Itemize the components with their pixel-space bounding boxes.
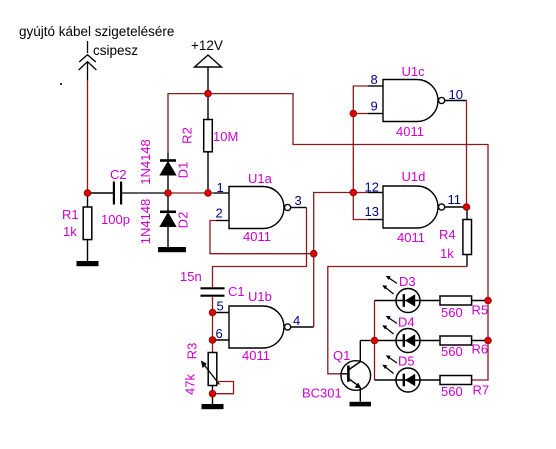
wire +12V rail right bbox=[208, 94, 488, 380]
diode D2 bbox=[160, 193, 176, 247]
svg-text:R2: R2 bbox=[180, 127, 195, 144]
ground under R1 bbox=[77, 261, 99, 266]
transistor Q1 bbox=[341, 341, 371, 402]
svg-text:560: 560 bbox=[441, 344, 463, 359]
junction pin5/C1 bbox=[209, 309, 216, 316]
junction R2/pin1 bbox=[205, 190, 212, 197]
resistor R7 bbox=[440, 376, 472, 385]
wire U1b out4 up to feedback bbox=[314, 193, 354, 328]
stray dot bbox=[60, 83, 62, 85]
svg-text:R5: R5 bbox=[472, 303, 489, 318]
svg-text:8: 8 bbox=[371, 72, 378, 87]
wire U1c out10 down to node 11 bbox=[466, 101, 468, 208]
junction pin2/out4 bbox=[310, 250, 317, 257]
resistor R6 bbox=[440, 336, 472, 345]
junction D1/D2 bbox=[165, 190, 172, 197]
ground under R3 bbox=[202, 404, 224, 409]
svg-text:100p: 100p bbox=[101, 212, 130, 227]
resistor R4 bbox=[463, 207, 472, 267]
svg-text:D2: D2 bbox=[176, 212, 191, 229]
resistor R5 bbox=[440, 296, 472, 305]
svg-text:C1: C1 bbox=[228, 284, 245, 299]
resistor R1 bbox=[83, 193, 92, 261]
capacitor C1 bbox=[201, 288, 225, 295]
pin 8 stub bbox=[368, 85, 383, 87]
svg-text:R3: R3 bbox=[185, 343, 200, 360]
svg-text:6: 6 bbox=[216, 326, 223, 341]
svg-text:D3: D3 bbox=[399, 274, 416, 289]
svg-text:+12V: +12V bbox=[191, 38, 223, 53]
svg-text:U1d: U1d bbox=[402, 169, 426, 184]
svg-text:4011: 4011 bbox=[243, 229, 271, 244]
wire LED row 1 bbox=[375, 300, 441, 302]
svg-text:R7: R7 bbox=[473, 383, 490, 398]
resistor R2 bbox=[204, 94, 213, 193]
wire R4 to Q1 base bbox=[328, 267, 467, 374]
op: NAND gate U1c bbox=[383, 80, 467, 122]
pin 13 stub bbox=[368, 219, 383, 221]
LED D5 bbox=[382, 355, 420, 392]
svg-text:13: 13 bbox=[365, 204, 379, 219]
svg-text:11: 11 bbox=[448, 192, 462, 207]
svg-text:BC301: BC301 bbox=[302, 386, 342, 401]
wire U1a out3 to C1 bbox=[213, 208, 307, 289]
pin 6 stub bbox=[213, 339, 230, 341]
svg-text:R6: R6 bbox=[472, 342, 489, 357]
junction node A (R1/C2) bbox=[84, 190, 91, 197]
pin 12 stub bbox=[368, 192, 383, 194]
svg-text:4: 4 bbox=[293, 313, 300, 328]
svg-text:4011: 4011 bbox=[396, 124, 424, 139]
svg-text:5: 5 bbox=[217, 299, 224, 314]
svg-text:2: 2 bbox=[216, 206, 223, 221]
wire C1 to U1b pins bbox=[212, 296, 214, 353]
wire clip to node A bbox=[87, 80, 89, 193]
svg-text:U1c: U1c bbox=[402, 64, 426, 79]
lead R5 to rail bbox=[472, 300, 488, 302]
svg-text:1N4148: 1N4148 bbox=[138, 139, 153, 185]
svg-text:560: 560 bbox=[441, 305, 463, 320]
svg-text:gyújtó kábel szigetelésére: gyújtó kábel szigetelésére bbox=[19, 24, 174, 39]
wire LED anode rail bbox=[374, 301, 376, 381]
wire LED row 3 bbox=[375, 379, 441, 381]
svg-text:10: 10 bbox=[449, 87, 463, 102]
svg-text:1k: 1k bbox=[440, 246, 454, 261]
diode D1 bbox=[160, 153, 176, 193]
svg-text:9: 9 bbox=[371, 99, 378, 114]
svg-text:10M: 10M bbox=[213, 129, 238, 144]
svg-text:1: 1 bbox=[217, 180, 224, 195]
wire R3 wiper loop bbox=[213, 382, 234, 394]
clip / probe symbol bbox=[79, 41, 97, 81]
op: NAND gate U1d bbox=[383, 186, 467, 228]
junction pin12 bbox=[350, 189, 357, 196]
ground under D2 bbox=[158, 247, 186, 252]
op: NAND gate U1b bbox=[229, 306, 314, 348]
potentiometer R3 bbox=[201, 353, 220, 405]
junction pin9 bbox=[350, 110, 357, 117]
pin 9 stub bbox=[368, 113, 383, 115]
wire main node row y=193 bbox=[88, 192, 114, 194]
svg-text:D1: D1 bbox=[176, 162, 191, 179]
capacitor C2 bbox=[114, 182, 121, 205]
svg-text:12: 12 bbox=[365, 180, 379, 195]
power symbol +12V bbox=[195, 55, 222, 67]
svg-text:C2: C2 bbox=[110, 167, 127, 182]
junction R3 bottom bbox=[209, 390, 216, 397]
junction collector/D4 bbox=[371, 337, 378, 344]
wire C2 to D-node to R2-node bbox=[122, 192, 169, 194]
pin 5 stub bbox=[213, 312, 230, 314]
ground under Q1 bbox=[350, 402, 372, 407]
junction R5/rail bbox=[485, 297, 492, 304]
junction R6/rail bbox=[485, 337, 492, 344]
svg-text:15n: 15n bbox=[180, 269, 202, 284]
svg-text:D5: D5 bbox=[398, 354, 415, 369]
junction pin11/R4 bbox=[463, 204, 470, 211]
wire collector to LED rail bbox=[370, 340, 375, 342]
junction +12V bbox=[205, 90, 212, 97]
pin 1 stub bbox=[214, 192, 230, 194]
lead R6 to rail bbox=[472, 340, 488, 342]
power stem bbox=[207, 67, 209, 94]
svg-text:U1b: U1b bbox=[248, 289, 272, 304]
svg-text:4011: 4011 bbox=[242, 348, 270, 363]
svg-text:csipesz: csipesz bbox=[93, 43, 138, 58]
svg-text:D4: D4 bbox=[398, 315, 415, 330]
wire +12V rail left to D1 bbox=[168, 94, 208, 153]
svg-text:1N4148: 1N4148 bbox=[138, 199, 153, 245]
svg-text:R4: R4 bbox=[439, 227, 456, 242]
wire U1c/U1d tied inputs bbox=[353, 86, 368, 220]
svg-text:U1a: U1a bbox=[248, 171, 273, 186]
svg-text:4011: 4011 bbox=[397, 230, 425, 245]
op: NAND gate U1a bbox=[216, 187, 307, 229]
svg-text:47k: 47k bbox=[183, 374, 198, 395]
svg-text:560: 560 bbox=[441, 384, 463, 399]
junction pin6/R3 bbox=[209, 337, 216, 344]
wire U1a pin2 net bbox=[210, 221, 314, 254]
svg-text:Q1: Q1 bbox=[333, 348, 350, 363]
svg-text:3: 3 bbox=[295, 193, 302, 208]
wire LED row 2 bbox=[375, 340, 441, 342]
LED D4 bbox=[382, 316, 420, 353]
svg-text:R1: R1 bbox=[62, 207, 79, 222]
LED D3 bbox=[382, 276, 420, 313]
svg-text:1k: 1k bbox=[63, 224, 77, 239]
